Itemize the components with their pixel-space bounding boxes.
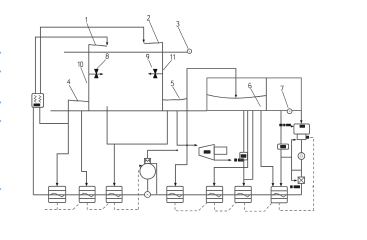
deaerator storage box	[297, 134, 306, 140]
valve V9 arrow	[148, 73, 151, 75]
shaft line	[64, 51, 187, 53]
drain H3 to pump suction	[114, 167, 140, 209]
arrow into heater1	[56, 183, 59, 187]
drain H7 to deaerator	[279, 137, 314, 210]
wire storage down to pump	[300, 140, 302, 153]
deaerator box DA	[294, 124, 310, 134]
heater H6	[235, 186, 251, 202]
wire HP exhaust down to heater1	[57, 100, 68, 185]
box X diagonals	[298, 177, 304, 183]
boiler B	[32, 94, 44, 108]
wire heater6 merge risers	[244, 111, 253, 180]
heat exchanger box X	[298, 177, 304, 183]
text to condenser	[234, 159, 244, 162]
label 7	[280, 86, 283, 91]
leader 10	[81, 67, 87, 83]
arrow into deaerator	[300, 120, 302, 123]
main steam arrow into HP	[106, 42, 108, 45]
blue scan specks	[0, 52, 1, 190]
wire deaerator inlet drop	[300, 111, 302, 123]
arrow into deaerator left	[291, 125, 294, 127]
arrow BFPT exhaust	[229, 159, 232, 161]
boiler coil right	[39, 95, 41, 102]
turbine HP connector edge	[88, 44, 90, 101]
arrow into heater5	[213, 183, 216, 187]
arrow into cooler X	[294, 179, 297, 181]
LP flow curve	[207, 95, 266, 99]
drain dashes group	[45, 137, 314, 211]
turbine BFPT body	[199, 145, 214, 161]
wire box X down to feed line	[300, 183, 302, 194]
drain H5	[215, 203, 236, 211]
wire gland cooler branch	[281, 156, 292, 158]
turbine IP bottom edge	[163, 99, 187, 100]
label 5	[171, 81, 174, 86]
heater H2	[79, 186, 95, 202]
wire cold reheat return (boiler to junction)	[40, 107, 69, 123]
wire main steam: boiler to HP turbine	[35, 37, 107, 93]
generator circle	[287, 109, 292, 114]
wire pump down	[300, 159, 302, 177]
drain H6	[244, 203, 272, 212]
motor box M	[144, 158, 150, 163]
drain cooler text	[241, 154, 247, 157]
text BP-1 supply	[279, 124, 291, 127]
wire LP extraction to heater5	[214, 111, 248, 185]
wire pump to impeller	[147, 179, 149, 191]
label 4	[67, 79, 70, 84]
wire LP extraction through gland cooler to heater7 second	[280, 111, 282, 185]
turbine HP (4) top edge	[89, 44, 107, 46]
heater H4	[167, 186, 183, 202]
label 8	[106, 54, 109, 59]
wire pump discharge to heater4	[151, 164, 157, 195]
leader 11	[163, 60, 171, 70]
drain cooler box DC6	[240, 152, 248, 160]
label 1	[86, 17, 87, 22]
leader 2	[149, 21, 159, 43]
valve V8 stem	[89, 73, 102, 75]
label 10	[78, 62, 83, 67]
arrow into pump suction	[139, 164, 142, 167]
wire extraction to heater2	[82, 111, 87, 185]
gland cooler box GC	[278, 144, 289, 149]
wire extraction header heater3 left riser	[107, 106, 167, 144]
wire crossover branch down to heater4	[175, 99, 187, 185]
heater H7	[271, 187, 287, 203]
leader 3	[178, 27, 188, 48]
label 9	[146, 54, 149, 59]
crossover arrow into LP	[235, 95, 237, 98]
drain H4	[175, 203, 207, 211]
label 11	[170, 55, 174, 60]
valve V9 stem	[150, 73, 163, 75]
leader 6	[251, 89, 261, 107]
glyph drain label	[306, 136, 309, 139]
wire boiler feedwater downcomer	[32, 107, 34, 195]
motor text	[146, 159, 150, 162]
drain H2	[87, 203, 109, 210]
impeller circle	[145, 192, 151, 198]
text to condenser 2	[290, 185, 300, 188]
reheat arrow into IP	[143, 40, 145, 43]
heater H1	[49, 186, 66, 202]
wire recirculation branch	[292, 170, 302, 180]
arrow into heater2	[85, 183, 88, 187]
wire IP-LP crossover	[187, 69, 236, 99]
leader 4	[69, 85, 78, 101]
arrow into heater6	[242, 183, 245, 187]
deaerator text	[300, 125, 305, 128]
boiler label text	[34, 104, 41, 107]
pump P2 circle	[298, 153, 305, 160]
turbine IP (5) top edge	[144, 42, 163, 43]
LP / generator outer box	[207, 78, 301, 111]
arrow into BFPT	[195, 144, 198, 146]
wire LP extraction to heater6	[243, 111, 245, 185]
leader 1	[87, 23, 96, 45]
boiler coil left	[34, 95, 36, 102]
wire heater3 feed	[113, 144, 115, 185]
heater H3	[106, 186, 122, 202]
wire hot reheat: boiler to IP turbine	[40, 27, 143, 93]
label 3	[176, 21, 179, 26]
wire condensate riser to storage	[292, 140, 295, 170]
wire LP extraction to heater7 first	[261, 111, 273, 186]
leader 7	[282, 92, 288, 108]
valve V8 arrow	[100, 73, 103, 75]
drain stub	[310, 137, 314, 187]
pump box on BFPT	[214, 147, 227, 154]
wire extraction header (long horizontal)	[51, 110, 207, 112]
BFPT text	[204, 150, 211, 153]
arrow into storage	[294, 139, 297, 141]
drain H1	[45, 203, 80, 210]
wire BFPT steam supply	[177, 111, 195, 145]
wire into motor	[146, 150, 148, 158]
turbine HP bottom edge	[68, 100, 89, 102]
wire HP connector to header	[88, 102, 90, 111]
circle (3) exciter	[187, 49, 191, 53]
arrow into heater3	[113, 183, 116, 187]
wire BFPT exhaust	[214, 159, 229, 161]
valve V8 body	[95, 69, 99, 78]
label 6	[249, 83, 252, 88]
pump P1 circle	[140, 164, 156, 180]
leader 8	[97, 60, 106, 69]
heater H5	[206, 186, 222, 202]
label 2	[147, 15, 150, 20]
arrow into heater7 b	[280, 183, 283, 187]
arrow into heater7 a	[272, 183, 275, 187]
gland cooler text	[280, 145, 286, 148]
valve V9 body	[154, 69, 158, 78]
node junction dot	[186, 144, 188, 146]
leader 9	[149, 60, 152, 67]
pump M motor supply pipe	[147, 149, 177, 151]
arrow into heater4	[174, 183, 177, 187]
turbine IP connector edge	[162, 42, 164, 111]
wire condensate/feedwater line	[33, 194, 301, 196]
leader 5	[173, 87, 180, 99]
LP divider	[265, 78, 267, 111]
